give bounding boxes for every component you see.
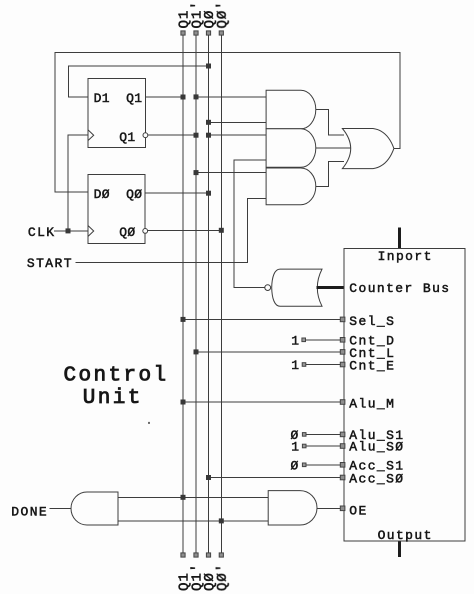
svg-text:DONE: DONE xyxy=(11,505,48,520)
wire Q1' bus to AND3 input a xyxy=(196,172,266,174)
speck artifact xyxy=(148,422,150,424)
wire inport top stub xyxy=(398,228,401,249)
node junction Q0' bus / input b xyxy=(219,518,224,523)
wire Q0 bus to AND2 input a xyxy=(209,134,267,136)
pin Alu_S1 xyxy=(340,432,345,437)
pin Cnt_D xyxy=(340,338,345,343)
wire AND1 output to OR input xyxy=(316,110,344,135)
svg-text:Unit: Unit xyxy=(83,387,143,410)
svg-text:Alu_M: Alu_M xyxy=(349,397,395,412)
wire Acc_S1 xyxy=(306,464,344,466)
svg-text:1: 1 xyxy=(291,333,300,348)
wire feedback loop OR output to D0 xyxy=(55,52,400,192)
node junction Q1' bus / AND3.a xyxy=(194,170,199,175)
wire Alu_S1 xyxy=(306,433,344,435)
wire START to AND3 input xyxy=(75,198,266,262)
wire output bottom stub xyxy=(398,541,401,557)
wire OE gate output to pin xyxy=(317,507,344,509)
svg-text:Counter Bus: Counter Bus xyxy=(349,281,450,296)
svg-text:QØ': QØ' xyxy=(215,563,231,591)
node Q0' bus xyxy=(215,1,231,591)
pin OE xyxy=(340,506,345,511)
node junction Q0 bus / AND2.a xyxy=(206,133,211,138)
wire CLK branch up to FF1 clock xyxy=(68,135,88,231)
svg-text:Sel_S: Sel_S xyxy=(349,314,395,329)
component main block (Inport/Output) xyxy=(344,248,465,543)
wire counter bus thick line into NOR xyxy=(317,286,345,289)
svg-text:Cnt_E: Cnt_E xyxy=(349,358,395,373)
wire Alu_S0 xyxy=(306,445,344,447)
wire Q0 bus to AND1 input b xyxy=(209,121,267,123)
svg-text:Inport: Inport xyxy=(378,249,433,264)
svg-text:START: START xyxy=(27,256,73,271)
node junction Q1 bus / Q1 out xyxy=(181,95,186,100)
svg-text:Acc_SØ: Acc_SØ xyxy=(349,471,404,486)
svg-text:DØ: DØ xyxy=(94,187,110,202)
svg-text:QØ': QØ' xyxy=(215,1,231,29)
node junction Q0 bus / AND1.b xyxy=(206,120,211,125)
wire CLK to FF0 clock xyxy=(54,230,88,232)
pin Alu_M xyxy=(340,400,345,405)
and-gate A1 xyxy=(266,90,316,129)
pin Alu_S0 xyxy=(340,444,345,449)
wire AND2 output to OR input xyxy=(316,147,351,149)
wire Acc_S0 from Q0 bus xyxy=(209,477,345,479)
node junction Q0 bus / Q0 out xyxy=(206,191,211,196)
svg-text:QØ: QØ xyxy=(119,225,135,240)
node Q1' bus xyxy=(190,1,206,591)
wire FF0 Q0' output to Q0' bus xyxy=(148,229,222,231)
node junction on Q0 bus at D1 wire xyxy=(206,64,211,69)
wire shared input a (Q1) xyxy=(118,496,268,498)
wire FF1 Q1 output to Q1 bus xyxy=(145,96,183,98)
wire AND3 output to OR input xyxy=(316,162,344,187)
svg-text:Alu_SØ: Alu_SØ xyxy=(349,440,404,455)
pin Acc_S0 xyxy=(340,475,345,480)
node Q1 bus xyxy=(177,10,193,591)
wire FF0 Q0 output to Q0 bus xyxy=(145,192,208,194)
node junction Q1 bus / Alu_M xyxy=(181,400,186,405)
svg-text:1: 1 xyxy=(291,358,300,373)
svg-text:Ø: Ø xyxy=(291,458,300,473)
node Q0 bus xyxy=(202,10,218,591)
wire Q0 bus to D1 input xyxy=(69,66,209,97)
wire Cnt_E xyxy=(306,364,344,366)
svg-text:Q1: Q1 xyxy=(126,91,142,106)
nor-gate N1 (counter bus zero detect, points left) xyxy=(265,269,322,306)
pin Cnt_E xyxy=(340,362,345,367)
node junction Q1' bus / AND1.a xyxy=(194,94,199,99)
flip-flop U2 (D0/Q0) xyxy=(88,174,148,243)
svg-text:1: 1 xyxy=(291,440,300,455)
svg-text:Control: Control xyxy=(64,365,169,388)
wire FF1 Q1' output to Q1' bus xyxy=(148,134,196,136)
wire shared input b (Q0') xyxy=(118,520,268,522)
node junction Q0 bus / Acc_S0 xyxy=(206,475,211,480)
and-gate A2 xyxy=(266,129,316,168)
flip-flop U1 (D1/Q1) xyxy=(88,79,148,148)
svg-text:Q1: Q1 xyxy=(119,130,135,145)
node junction Q1' bus / Cnt_L xyxy=(194,349,199,354)
node junction Q1 bus / Sel_S xyxy=(181,317,186,322)
wire Sel_S from Q1 bus xyxy=(183,318,344,320)
wire Cnt_L from Q1' bus xyxy=(196,351,344,353)
wire DONE gate output xyxy=(50,508,72,510)
svg-text:Output: Output xyxy=(378,528,433,543)
svg-text:OE: OE xyxy=(349,503,367,518)
node junction Q0' bus / Q0' out xyxy=(219,228,224,233)
node junction Q1' bus / Q1' out xyxy=(194,133,199,138)
and-gate A4 (DONE, points left) xyxy=(71,492,118,525)
and-gate A3 xyxy=(266,168,316,205)
svg-text:CLK: CLK xyxy=(28,225,56,240)
pin Acc_S1 xyxy=(340,463,345,468)
pin Cnt_L xyxy=(340,350,345,355)
node junction Q1 bus / input a xyxy=(181,495,186,500)
wire Q1' bus to AND1 input a xyxy=(196,96,266,98)
node junction CLK branch xyxy=(66,228,71,233)
wire Cnt_D xyxy=(306,339,345,341)
wire Alu_M from Q1 bus xyxy=(183,401,344,403)
and-gate A5 (OE) xyxy=(268,491,317,525)
svg-text:D1: D1 xyxy=(94,91,110,106)
svg-text:QØ: QØ xyxy=(126,187,142,202)
pin Sel_S xyxy=(340,317,345,322)
or-gate O1 xyxy=(342,129,394,169)
wire NOR output to AND2 input b xyxy=(234,160,266,288)
